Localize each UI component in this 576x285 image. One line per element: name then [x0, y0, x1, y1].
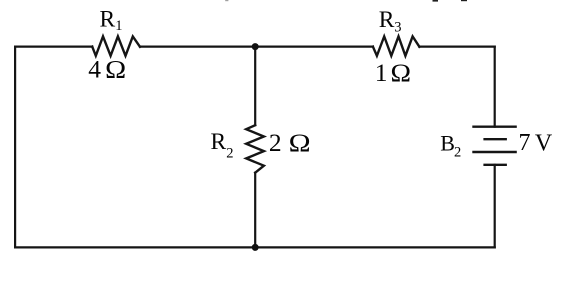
svg-text:R: R — [211, 129, 227, 155]
svg-text:B: B — [440, 130, 455, 155]
svg-text:2: 2 — [226, 145, 233, 161]
svg-text:2: 2 — [269, 128, 282, 157]
svg-text:2: 2 — [454, 145, 461, 161]
svg-text:Ω: Ω — [391, 58, 412, 87]
svg-text:1: 1 — [375, 58, 388, 87]
svg-text:Ω: Ω — [105, 54, 126, 83]
svg-text:V: V — [535, 130, 553, 156]
svg-text:R: R — [100, 7, 116, 33]
svg-text:7: 7 — [519, 130, 531, 156]
svg-text:1: 1 — [115, 18, 122, 34]
svg-text:3: 3 — [394, 19, 401, 35]
svg-text:4: 4 — [88, 54, 101, 83]
svg-text:R: R — [379, 7, 395, 33]
svg-text:Ω: Ω — [289, 128, 311, 157]
